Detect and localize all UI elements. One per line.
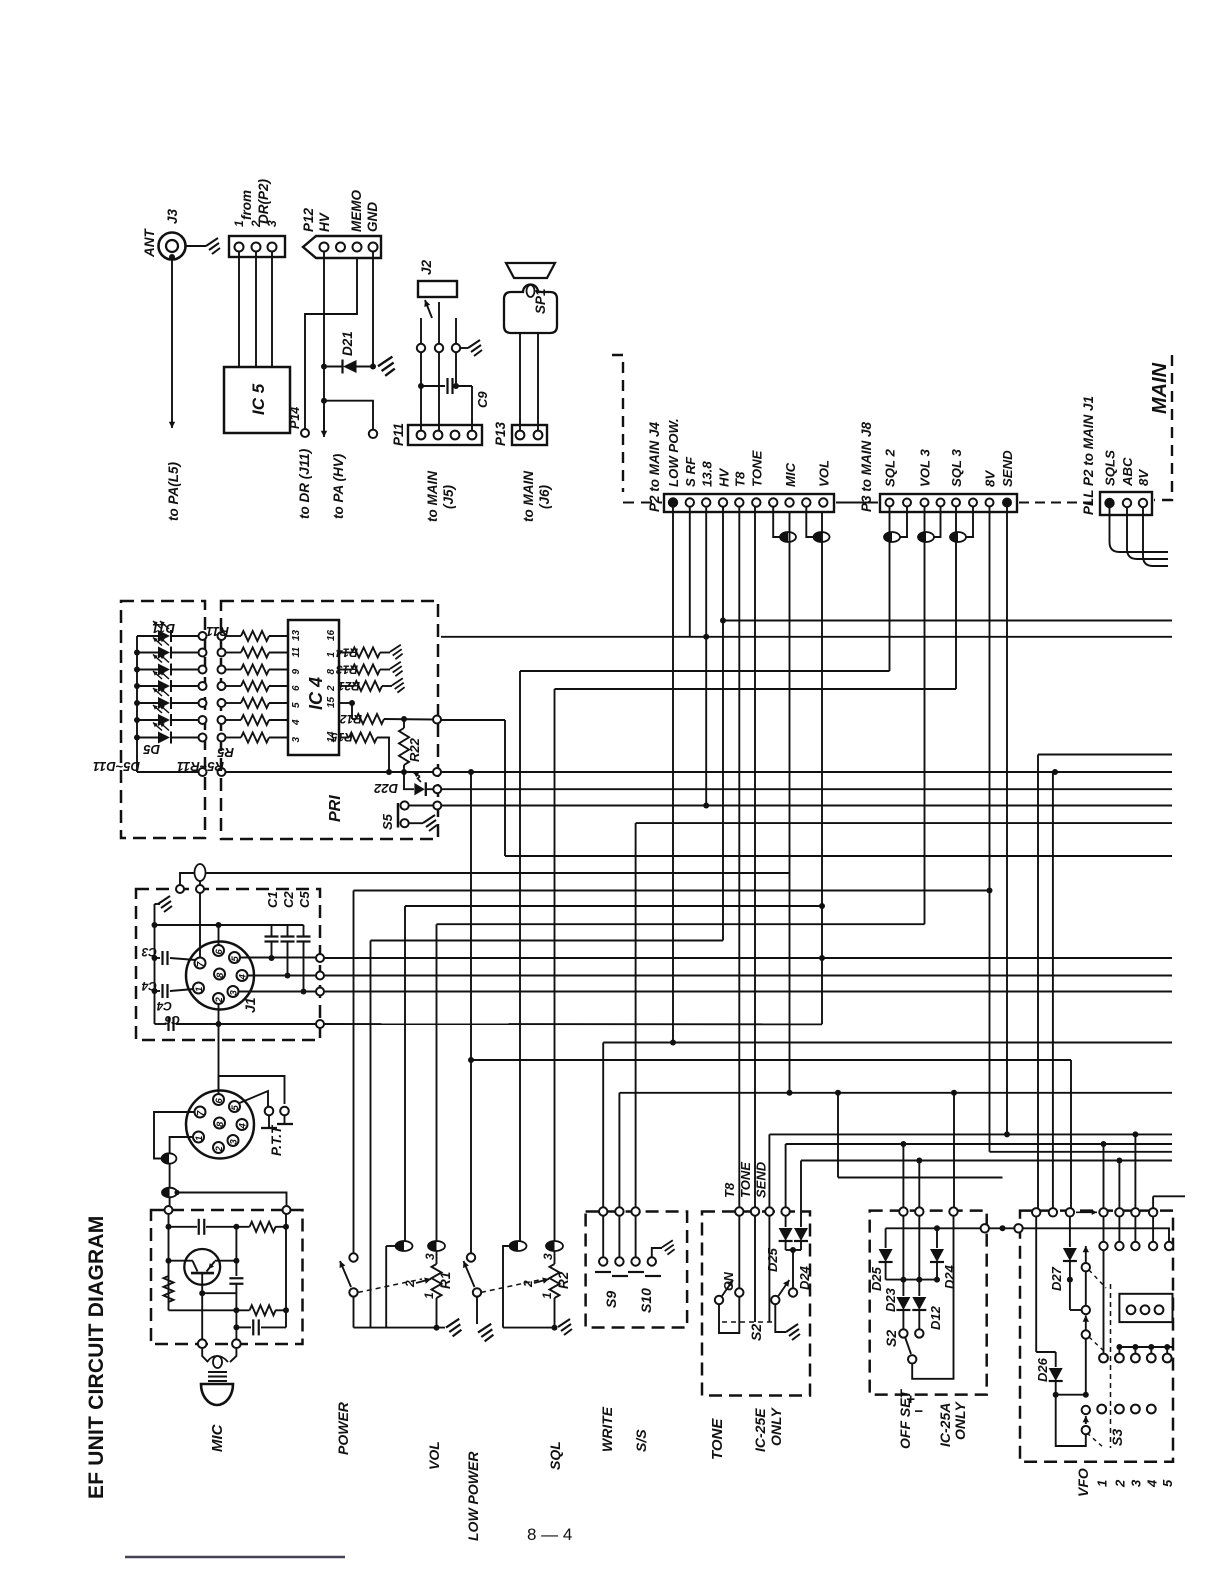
svg-text:2: 2	[214, 997, 225, 1004]
svg-text:from: from	[239, 190, 254, 220]
svg-text:4: 4	[238, 974, 249, 981]
svg-text:DR(P2): DR(P2)	[256, 178, 271, 224]
svg-text:S9: S9	[603, 1291, 619, 1308]
svg-text:TONE: TONE	[750, 449, 765, 487]
svg-text:R13: R13	[336, 663, 358, 677]
svg-text:S/S: S/S	[633, 1429, 649, 1452]
svg-text:ANT: ANT	[142, 228, 157, 258]
svg-text:C4: C4	[156, 999, 172, 1013]
svg-text:D22: D22	[373, 781, 398, 796]
svg-text:MEMO: MEMO	[349, 190, 364, 232]
svg-text:4: 4	[238, 1123, 249, 1130]
svg-text:P12: P12	[301, 207, 316, 232]
svg-text:2: 2	[1112, 1479, 1127, 1488]
svg-text:R21: R21	[338, 679, 360, 693]
svg-text:WRITE: WRITE	[599, 1406, 615, 1452]
svg-text:MIC: MIC	[783, 462, 798, 487]
svg-text:1: 1	[232, 220, 246, 227]
svg-text:J1: J1	[242, 997, 258, 1013]
svg-text:LOW POWER: LOW POWER	[465, 1451, 481, 1541]
svg-text:7: 7	[196, 1110, 207, 1116]
svg-text:S5: S5	[380, 813, 395, 830]
svg-text:to MAIN: to MAIN	[425, 471, 440, 522]
svg-text:13: 13	[291, 629, 302, 641]
svg-text:6: 6	[291, 685, 302, 691]
svg-text:D5: D5	[143, 742, 160, 757]
svg-text:HV: HV	[317, 212, 332, 232]
svg-text:D21: D21	[340, 331, 355, 356]
svg-text:6: 6	[214, 1098, 225, 1104]
svg-text:C2: C2	[281, 891, 296, 908]
svg-text:EF UNIT CIRCUIT DIAGRAM: EF UNIT CIRCUIT DIAGRAM	[85, 1216, 108, 1499]
svg-text:P11: P11	[391, 423, 406, 446]
svg-text:GND: GND	[365, 202, 380, 232]
svg-text:R22: R22	[407, 737, 422, 762]
svg-text:3: 3	[229, 1139, 240, 1145]
svg-text:5: 5	[291, 702, 302, 708]
svg-text:R11: R11	[206, 624, 229, 639]
svg-text:(J5): (J5)	[441, 484, 456, 509]
svg-text:4: 4	[1144, 1479, 1159, 1488]
svg-text:9: 9	[291, 669, 302, 675]
svg-text:3: 3	[229, 990, 240, 996]
svg-text:P3 to MAIN J8: P3 to MAIN J8	[859, 421, 874, 512]
svg-text:D25: D25	[765, 1247, 780, 1272]
svg-text:S RF: S RF	[683, 456, 698, 487]
svg-text:C1: C1	[265, 891, 280, 908]
svg-text:D12: D12	[928, 1305, 943, 1330]
svg-text:5: 5	[1160, 1479, 1175, 1487]
svg-text:HV: HV	[717, 467, 732, 487]
svg-text:S2: S2	[883, 1330, 899, 1347]
svg-text:MIC: MIC	[209, 1423, 226, 1452]
svg-text:ON: ON	[722, 1271, 736, 1291]
svg-text:P2 to MAIN J4: P2 to MAIN J4	[647, 421, 662, 512]
svg-text:R2: R2	[556, 1271, 571, 1289]
svg-text:SQLS: SQLS	[1103, 450, 1118, 486]
svg-text:IC 4: IC 4	[306, 677, 326, 710]
svg-text:ABC: ABC	[1120, 457, 1135, 487]
svg-text:1: 1	[326, 652, 337, 658]
svg-text:7: 7	[196, 961, 207, 967]
svg-text:1: 1	[194, 987, 205, 992]
svg-text:S10: S10	[638, 1288, 654, 1313]
svg-text:VOL: VOL	[426, 1441, 442, 1470]
svg-text:P.T.T: P.T.T	[269, 1124, 284, 1156]
svg-text:2: 2	[326, 685, 337, 692]
svg-text:IC-25A: IC-25A	[937, 1403, 953, 1447]
svg-text:S2: S2	[748, 1324, 764, 1341]
svg-text:VOL 3: VOL 3	[918, 448, 933, 487]
svg-text:8: 8	[215, 1121, 226, 1127]
svg-text:PLL P2 to MAIN J1: PLL P2 to MAIN J1	[1081, 396, 1096, 515]
svg-text:R1: R1	[438, 1272, 453, 1289]
svg-text:−: −	[914, 1403, 923, 1420]
svg-text:8V: 8V	[1136, 469, 1151, 486]
svg-text:R15: R15	[331, 730, 353, 744]
svg-text:R5~R11: R5~R11	[177, 759, 224, 774]
svg-text:POWER: POWER	[335, 1401, 351, 1455]
svg-text:13.8: 13.8	[700, 461, 715, 487]
svg-text:to PA (HV): to PA (HV)	[331, 453, 346, 519]
svg-text:1: 1	[540, 1292, 554, 1299]
svg-text:T8: T8	[722, 1182, 737, 1198]
svg-text:2: 2	[214, 1146, 225, 1153]
svg-text:11: 11	[291, 647, 302, 658]
svg-text:SQL 2: SQL 2	[883, 448, 898, 487]
svg-text:3: 3	[423, 1253, 437, 1260]
svg-text:1: 1	[422, 1292, 436, 1299]
svg-text:J2: J2	[419, 259, 434, 275]
svg-text:R5: R5	[217, 745, 234, 760]
svg-text:D11: D11	[152, 621, 175, 636]
svg-text:6: 6	[214, 949, 225, 955]
svg-text:R12: R12	[340, 712, 362, 726]
svg-text:S3: S3	[1109, 1429, 1125, 1446]
svg-text:2: 2	[521, 1280, 535, 1288]
svg-text:3: 3	[1128, 1479, 1143, 1487]
svg-text:1: 1	[1095, 1480, 1110, 1487]
svg-text:8: 8	[215, 972, 226, 978]
svg-text:to DR (J11): to DR (J11)	[297, 448, 312, 519]
svg-text:C5: C5	[297, 891, 312, 908]
svg-text:15: 15	[326, 696, 337, 708]
svg-text:3: 3	[541, 1253, 555, 1260]
svg-text:VOL: VOL	[817, 460, 832, 487]
svg-text:D26: D26	[1035, 1357, 1050, 1382]
svg-text:VFO: VFO	[1075, 1468, 1091, 1497]
svg-text:IC-25E: IC-25E	[752, 1408, 768, 1452]
svg-text:D5~D11: D5~D11	[93, 759, 140, 774]
svg-text:D24: D24	[942, 1264, 957, 1289]
svg-text:5: 5	[230, 1105, 241, 1111]
svg-text:D25: D25	[869, 1266, 884, 1291]
svg-text:SQL 3: SQL 3	[949, 448, 964, 487]
svg-text:TONE: TONE	[709, 1418, 726, 1460]
svg-text:T8: T8	[733, 471, 748, 487]
svg-text:(J6): (J6)	[537, 484, 552, 509]
svg-text:1: 1	[194, 1136, 205, 1141]
svg-text:LOW POW.: LOW POW.	[666, 418, 681, 487]
svg-text:4: 4	[291, 719, 302, 726]
svg-text:5: 5	[230, 956, 241, 962]
svg-text:P14: P14	[288, 407, 302, 429]
svg-text:SQL: SQL	[547, 1441, 563, 1470]
svg-text:D27: D27	[1049, 1266, 1064, 1291]
svg-text:3: 3	[291, 737, 302, 743]
svg-text:MAIN: MAIN	[1149, 362, 1171, 414]
svg-text:D23: D23	[883, 1287, 898, 1312]
svg-text:R14: R14	[336, 646, 358, 660]
svg-text:to MAIN: to MAIN	[521, 471, 536, 522]
svg-text:D24: D24	[797, 1265, 812, 1290]
svg-text:C4: C4	[141, 979, 157, 993]
svg-text:IC 5: IC 5	[249, 383, 268, 415]
svg-text:8V: 8V	[983, 470, 998, 487]
svg-text:PRI: PRI	[327, 795, 344, 822]
svg-text:P13: P13	[493, 421, 508, 446]
svg-text:8: 8	[326, 669, 337, 675]
svg-text:SEND: SEND	[1000, 450, 1015, 487]
svg-text:ONLY: ONLY	[952, 1400, 968, 1440]
svg-text:to PA(L5): to PA(L5)	[166, 462, 181, 521]
svg-text:8 — 4: 8 — 4	[527, 1525, 572, 1544]
svg-text:16: 16	[326, 629, 337, 641]
svg-text:J3: J3	[165, 208, 180, 224]
svg-text:C9: C9	[475, 391, 490, 408]
svg-text:C3: C3	[141, 945, 157, 959]
svg-text:ONLY: ONLY	[768, 1406, 784, 1446]
svg-text:2: 2	[403, 1280, 417, 1288]
